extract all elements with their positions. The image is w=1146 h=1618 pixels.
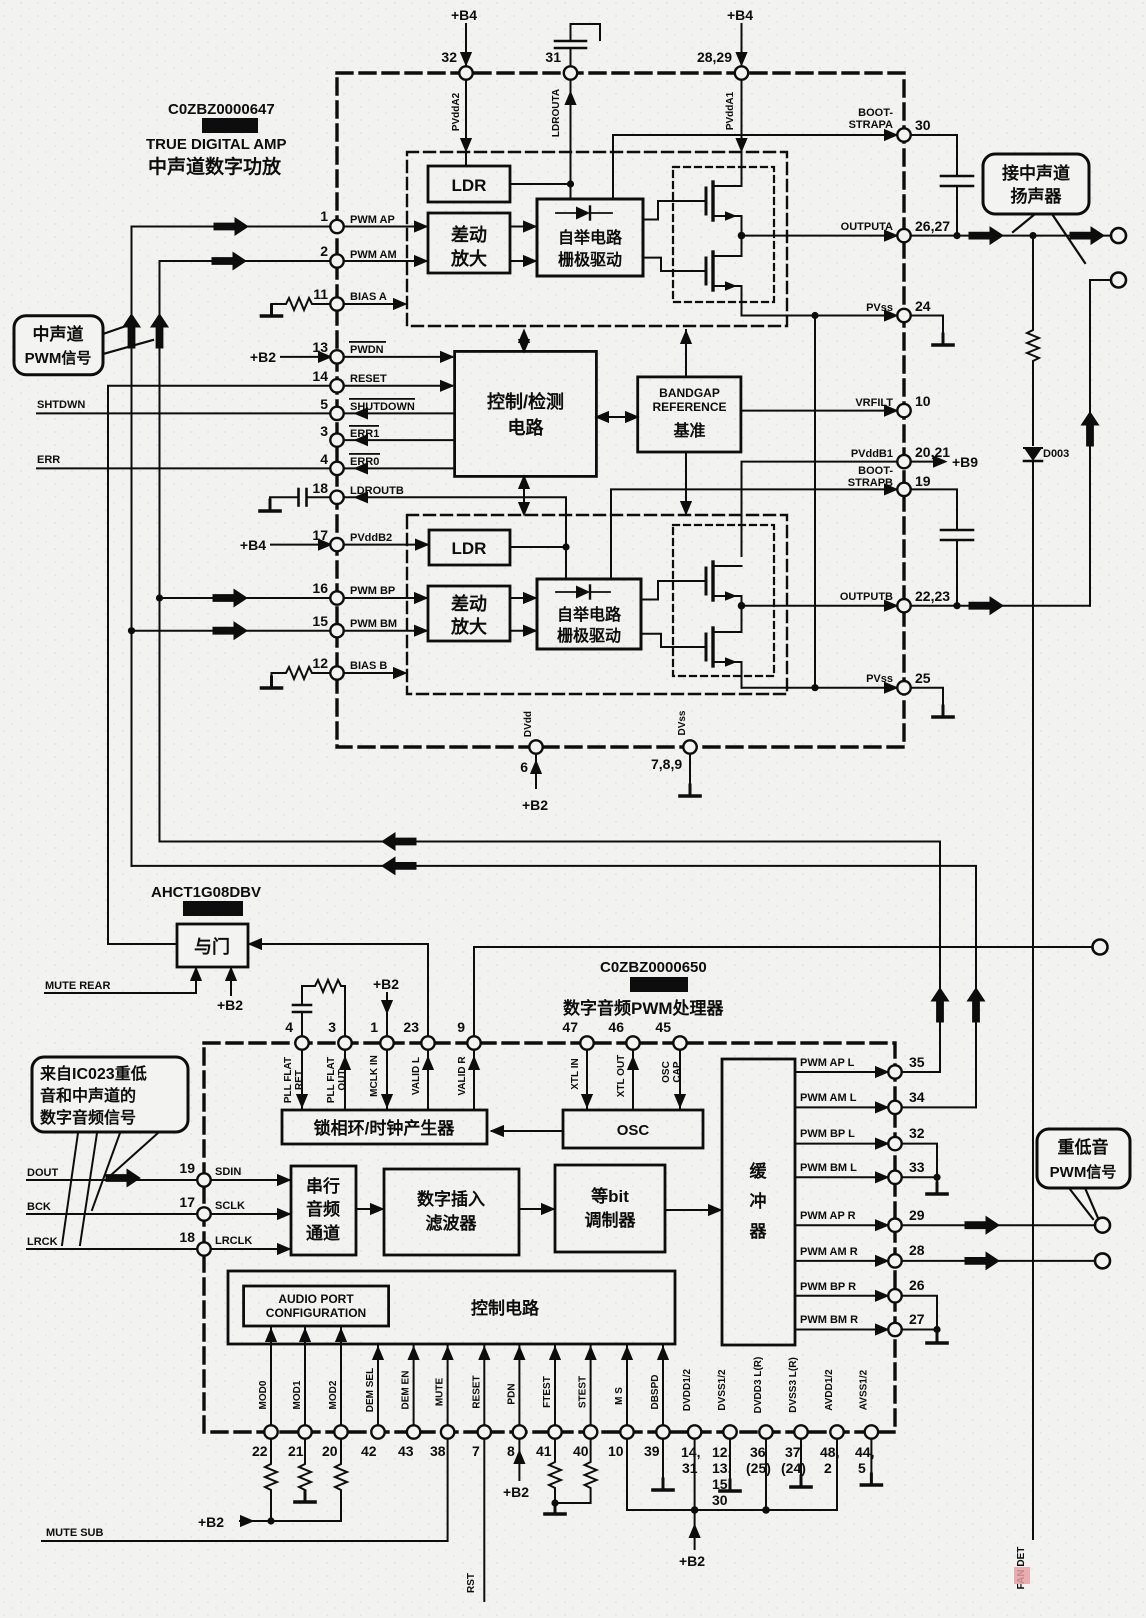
wire bandgap up arrow [685,330,687,377]
svg-text:器: 器 [749,1222,768,1241]
fat arrow DOUT [106,1169,140,1186]
svg-text:VALID L: VALID L [411,1057,422,1095]
svg-text:MOD1: MOD1 [292,1380,303,1409]
redaction bar 3 [630,977,688,992]
wire VRFILT to pin10 [741,410,896,412]
pin 29 [888,1219,901,1232]
junction rail DVDD [691,1506,699,1514]
wire DEM SEL up [377,1346,379,1426]
pin 1 [380,1036,393,1049]
highlight on FAN DET [1014,1567,1030,1584]
callout pointer lines [62,1133,78,1245]
transistor Q3 gate bar [705,568,708,594]
svg-text:35: 35 [909,1054,925,1070]
svg-text:19: 19 [915,473,931,489]
wire pin11 BIAS A arrow [344,303,396,305]
wire buffer PWM AP R [795,1224,887,1226]
transistor Q2 channel bar [711,252,714,290]
fat arrow 29 [965,1217,999,1234]
wire filter to modulator [519,1208,553,1210]
wire pin13 PWDN to control [344,356,452,358]
junction PWM BM [128,627,135,634]
pin 10b [620,1425,633,1438]
svg-text:41: 41 [536,1443,552,1459]
LDR block B [429,530,510,565]
wire MUTE up [447,1346,449,1426]
svg-text:数字音频PWM处理器: 数字音频PWM处理器 [563,998,725,1018]
pin 19 [897,483,910,496]
fat arrow outputA 2 [1070,227,1104,244]
redaction bar 2 [183,901,243,916]
wire pin1 to PLL [386,1050,388,1111]
fat arrow up on 1090 [1081,412,1098,446]
wire pin14 RESET to control [344,385,452,387]
svg-text:控制电路: 控制电路 [471,1298,540,1318]
pin 9 [467,1036,480,1049]
pin 43 [407,1425,420,1438]
svg-text:DVss: DVss [677,710,688,735]
transistor Q4 source arrow [725,657,737,667]
wire amp B to bootstrap B [510,597,535,599]
svg-text:差动: 差动 [451,224,487,245]
svg-text:MUTE: MUTE [435,1378,446,1407]
diode in bootstrap A [556,212,576,214]
svg-text:16: 16 [312,580,328,596]
svg-text:25: 25 [915,670,931,686]
svg-text:43: 43 [398,1443,414,1459]
svg-text:C0ZBZ0000647: C0ZBZ0000647 [168,101,275,118]
svg-text:ERR: ERR [37,454,60,466]
wire OUTPUTA external [911,235,1111,237]
svg-text:PWM BP R: PWM BP R [800,1281,856,1293]
svg-text:7,8,9: 7,8,9 [651,756,682,772]
wire ERR [37,467,331,469]
svg-text:差动: 差动 [451,593,487,614]
wire feedback upper [160,842,941,1073]
svg-text:+B2: +B2 [198,1514,224,1530]
resistor under pin41 [549,1439,561,1504]
svg-text:DVDD1/2: DVDD1/2 [682,1368,693,1411]
resistor under pin22 [265,1439,277,1522]
svg-text:RESET: RESET [471,1375,482,1408]
pin 33 [888,1171,901,1184]
svg-text:18: 18 [179,1229,195,1245]
transistor Q1 gate bar [705,188,708,214]
svg-text:PVddA2: PVddA2 [451,92,462,131]
wire buffer PWM AM R [795,1260,887,1262]
junction PWM BP [156,594,163,601]
wire pin15 PWM BM to amp B [344,630,426,632]
svg-text:PDN: PDN [506,1383,517,1404]
svg-text:+B2: +B2 [679,1553,705,1569]
svg-text:REFERENCE: REFERENCE [652,400,726,414]
modulator block 等bit调制器 [555,1165,665,1252]
svg-text:DBSPD: DBSPD [650,1374,661,1409]
transistor Q2 lower A gate lead [643,258,706,271]
pin 30 [897,128,910,141]
wire power rail [627,1509,837,1511]
svg-text:+B9: +B9 [952,454,978,470]
wire pin47 to OSC [586,1050,588,1111]
svg-text:27: 27 [909,1311,925,1327]
ground under pin21 [295,1491,315,1502]
resistor under pin20 [335,1439,347,1522]
pin 26 [888,1289,901,1302]
IC U650 dashed body [204,1043,895,1432]
OSC block [563,1110,703,1148]
wire amp B to bootstrap B lower [510,630,535,632]
svg-text:MOD0: MOD0 [258,1380,269,1409]
wire pin3 ERR1 from control [344,439,455,441]
svg-text:LDR: LDR [452,539,487,558]
svg-text:OUTPUTB: OUTPUTB [840,591,893,603]
pin 7 [478,1425,491,1438]
svg-text:BANDGAP: BANDGAP [659,386,720,400]
svg-text:数字插入: 数字插入 [417,1189,485,1209]
svg-text:PWM信号: PWM信号 [1050,1163,1117,1181]
pin 18 [197,1242,210,1255]
transistor Q4 channel bar [711,628,714,666]
svg-text:缓: 缓 [750,1161,768,1181]
svg-text:来自IC023重低: 来自IC023重低 [39,1064,147,1083]
wire bandgap down arrow [685,452,687,513]
svg-text:ERR0: ERR0 [350,456,379,468]
wire LDROUTA pin31 vertical [570,80,572,200]
transistor Q3 drain [713,565,742,567]
svg-text:28,29: 28,29 [697,49,732,65]
wire OUTPUTA to pin 26,27 [742,235,897,237]
svg-text:36: 36 [750,1444,766,1460]
svg-text:34: 34 [909,1089,925,1105]
PLL clock block 锁相环/时钟产生器 [282,1110,487,1144]
svg-text:接中声道: 接中声道 [1002,163,1070,183]
svg-text:RST: RST [466,1573,477,1593]
fat arrow up on 976 [967,988,984,1022]
wire DVss pin789 ground [689,754,691,797]
callout 来自IC023 [32,1057,188,1132]
junction PVss B [811,684,818,691]
svg-text:等bit: 等bit [591,1186,629,1206]
pin 34 [888,1101,901,1114]
svg-text:PWM AP: PWM AP [350,214,395,226]
svg-text:15: 15 [312,613,328,629]
ground DVss [680,785,700,796]
bootstrap gate drive block B [537,579,641,649]
wire pin5 SHUTDOWN from control [344,412,455,414]
amp block B 差动放大 [428,586,510,641]
svg-text:AHCT1G08DBV: AHCT1G08DBV [151,884,261,901]
svg-text:扬声器: 扬声器 [1011,186,1063,206]
wire BCK [27,1213,197,1215]
svg-text:PWM BP L: PWM BP L [800,1128,855,1140]
svg-text:LRCLK: LRCLK [215,1235,252,1247]
svg-text:放大: 放大 [450,616,487,637]
wire LDR A out to LDROUTA [510,183,571,185]
terminal speaker - [1111,273,1126,288]
wire pin30 to bootstrap cap [911,135,958,176]
svg-text:MCLK IN: MCLK IN [369,1055,380,1097]
wire PWM AM input [160,261,331,842]
svg-text:AUDIO PORT: AUDIO PORT [278,1292,354,1306]
wire pin4 to PLL [301,1050,303,1111]
wire buffer PWM AM L [795,1106,887,1108]
wire MOD0 up [270,1328,272,1426]
pin 3 [330,433,343,446]
wire PVssB to pin 25 [742,687,897,689]
wire +B9 from pin 20,21 [911,461,944,463]
svg-text:M S: M S [614,1387,625,1405]
serial audio block 串行音频通道 [291,1166,356,1255]
svg-text:基准: 基准 [672,421,705,440]
bootstrap gate drive block A [537,199,643,276]
wire control to channel B double arrow [523,479,525,512]
transistor Q4 drain [713,606,742,632]
svg-text:45: 45 [655,1019,671,1035]
fat arrow outputB [969,597,1003,614]
wire terminal2 down [1090,280,1111,606]
ground pin24 [933,334,953,345]
svg-text:32: 32 [441,49,457,65]
transistor Q4 source [713,662,742,688]
pin 23 [421,1036,434,1049]
junction cap-outputB [953,602,960,609]
pin 1 [330,220,343,233]
wire pin26 to pin27 [902,1296,938,1330]
svg-text:PWM BM L: PWM BM L [800,1162,857,1174]
wire DVSS ground [729,1439,731,1492]
AND gate 与门 box [177,924,248,967]
svg-text:PVddB2: PVddB2 [350,532,392,544]
pin 44,5 [865,1425,878,1438]
transistor Q3 upper B gate lead [641,581,706,600]
pin 18 [330,491,343,504]
fat arrow up ch A [123,314,140,348]
svg-text:PWM BM: PWM BM [350,618,397,630]
terminal valid R [1093,940,1108,955]
wire VALID R to terminal [474,947,1092,1036]
wire pin46 from OSC [632,1050,634,1111]
wire buffer PWM BM L [795,1176,887,1178]
svg-text:1: 1 [320,208,328,224]
svg-text:数字音频信号: 数字音频信号 [40,1108,136,1127]
wire pin19 to bootstrap cap B [911,489,958,530]
control block 控制电路 [228,1271,675,1344]
svg-text:PVss: PVss [866,673,893,685]
wire buffer PWM AP L [795,1071,887,1073]
wire PDN up [518,1346,520,1426]
svg-text:RESET: RESET [350,373,387,385]
svg-text:22: 22 [252,1443,268,1459]
pin 14,31 [688,1425,701,1438]
ground pin25 [933,706,953,717]
svg-text:MOD2: MOD2 [328,1380,339,1409]
transistor Q2 source [713,286,742,316]
svg-text:46: 46 [608,1019,624,1035]
resistor bias B [272,667,331,688]
svg-text:2: 2 [320,243,328,259]
svg-text:30: 30 [915,117,931,133]
svg-text:14,: 14, [681,1444,700,1460]
junction 33 [933,1174,940,1181]
pin 5 [330,407,343,420]
svg-text:PWM AP R: PWM AP R [800,1210,856,1222]
svg-text:C0ZBZ0000650: C0ZBZ0000650 [600,959,707,976]
svg-text:38: 38 [430,1443,446,1459]
transistor Q1 source [713,216,742,236]
transistor Q4 gate bar [705,634,708,660]
svg-text:中声道数字功放: 中声道数字功放 [148,155,282,178]
resistor under pin40 [555,1439,597,1504]
svg-text:3: 3 [328,1019,336,1035]
pin 20,21 [897,455,910,468]
capacitor pin18 LDROUTB [307,496,331,498]
svg-text:LDROUTB: LDROUTB [350,485,404,497]
svg-text:+B2: +B2 [250,349,276,365]
svg-text:通道: 通道 [306,1223,340,1243]
redaction bar 1 [202,118,258,133]
svg-text:STRAPB: STRAPB [848,477,893,489]
pin 24 [897,309,910,322]
wire BOOT-STRAPB from pin19 [611,489,898,579]
svg-text:PVddB1: PVddB1 [851,448,893,460]
ground DVSS [720,1480,740,1491]
svg-text:PWDN: PWDN [350,344,384,356]
pin 12,13,15,30 [723,1425,736,1438]
svg-text:PWM AM L: PWM AM L [800,1092,857,1104]
transistor Q4 lower B gate lead [641,634,706,647]
svg-text:OSC: OSC [661,1061,672,1083]
svg-text:DVdd: DVdd [523,711,534,737]
svg-text:22,23: 22,23 [915,588,950,604]
svg-text:20,21: 20,21 [915,444,950,460]
pin 37 [794,1425,807,1438]
wire pin33 ground [902,1177,938,1194]
svg-text:31: 31 [545,49,561,65]
wire STEST up [590,1346,592,1426]
svg-text:放大: 放大 [450,248,487,269]
control/detect block 控制/检测电路 [455,351,597,476]
wire buffer PWM BM R [795,1329,887,1331]
pin 22 [264,1425,277,1438]
pin 4 [330,462,343,475]
wire pin3 from PLL [344,1050,346,1111]
wire MUTE REAR [45,969,196,993]
pin 13 [330,350,343,363]
svg-text:10: 10 [915,393,931,409]
svg-text:DEM SEL: DEM SEL [365,1368,376,1412]
pin 7,8,9 [683,740,696,753]
svg-text:BOOT-: BOOT- [858,107,893,119]
fat arrow PWM BM [213,622,247,639]
wire pin35 up [902,1071,941,1073]
svg-text:PLL FLAT: PLL FLAT [283,1057,294,1103]
svg-text:PLL FLAT: PLL FLAT [326,1057,337,1103]
svg-text:9: 9 [457,1019,465,1035]
svg-text:24: 24 [915,298,931,314]
svg-text:SHUTDOWN: SHUTDOWN [350,401,415,413]
svg-text:音和中声道的: 音和中声道的 [40,1086,136,1105]
pin 45 [673,1036,686,1049]
svg-text:7: 7 [472,1443,480,1459]
svg-text:调制器: 调制器 [585,1210,637,1230]
svg-text:12: 12 [312,655,328,671]
pin 40 [584,1425,597,1438]
wire serial to filter [356,1208,382,1210]
svg-text:PWM AM: PWM AM [350,249,397,261]
svg-text:37: 37 [785,1444,801,1460]
terminal speaker + [1111,228,1126,243]
svg-text:+B4: +B4 [451,7,477,23]
wire PVssA to pin 24 [742,315,897,317]
svg-text:3: 3 [320,423,328,439]
wire SDIN to serial [211,1179,289,1181]
svg-text:RET: RET [294,1070,305,1090]
svg-text:+B2: +B2 [522,797,548,813]
diode D003 [1024,447,1042,449]
amp block A 差动放大 [428,213,510,273]
output stage A dashed box [673,167,774,302]
pin 32 [459,66,472,79]
svg-text:20: 20 [322,1443,338,1459]
svg-text:音频: 音频 [306,1199,340,1219]
svg-text:4: 4 [285,1019,293,1035]
pin 16 [330,591,343,604]
wire pin16 PWM BP to amp B [344,597,426,599]
pin 36 [759,1425,772,1438]
svg-text:自举电路: 自举电路 [558,228,623,247]
junction LDR B out [562,543,569,550]
wire DVdd pin6 +B2 [535,754,537,789]
wire SCLK to serial [211,1213,289,1215]
svg-text:STEST: STEST [578,1376,589,1408]
wire +B2 AND [230,969,232,995]
svg-text:BIAS A: BIAS A [350,291,387,303]
pin 19 [197,1173,210,1186]
pin 41 [548,1425,561,1438]
wire AND left input [108,943,177,945]
svg-text:锁相环/时钟产生器: 锁相环/时钟产生器 [314,1118,456,1138]
wire pin2 PWM AM to amp A [344,260,426,262]
wire pin45 to OSC [679,1050,681,1111]
IC2 top pins [295,1036,686,1049]
pin 4 [295,1036,308,1049]
svg-text:XTL OUT: XTL OUT [616,1055,627,1098]
wire +B4 to pin32 [465,24,467,66]
wire LDR B out [510,546,566,548]
svg-text:6: 6 [520,759,528,775]
sub-block channel B dashed box [407,515,787,694]
ground LDROUTB cap [260,500,280,511]
pin 38 [441,1425,454,1438]
junction rail DVDD3 [762,1506,770,1514]
wire amp A to bootstrap A lower [510,260,535,262]
svg-text:OUT: OUT [337,1069,348,1090]
pin 21 [298,1425,311,1438]
svg-text:+B2: +B2 [373,976,399,992]
fat arrow outputA 1 [969,227,1003,244]
wire +B4 to pin28,29 [741,24,743,66]
wire pin24 ground [911,316,944,346]
svg-text:+B2: +B2 [217,997,243,1013]
pin 22,23 [897,599,910,612]
svg-text:滤波器: 滤波器 [426,1213,478,1233]
svg-text:13: 13 [312,339,328,355]
wire pin9 from PLL [473,1050,475,1111]
svg-text:ERR1: ERR1 [350,428,379,440]
svg-text:(24): (24) [781,1460,806,1476]
wire MUTE SUB [42,1439,448,1542]
wire pin34 up [902,1106,977,1108]
